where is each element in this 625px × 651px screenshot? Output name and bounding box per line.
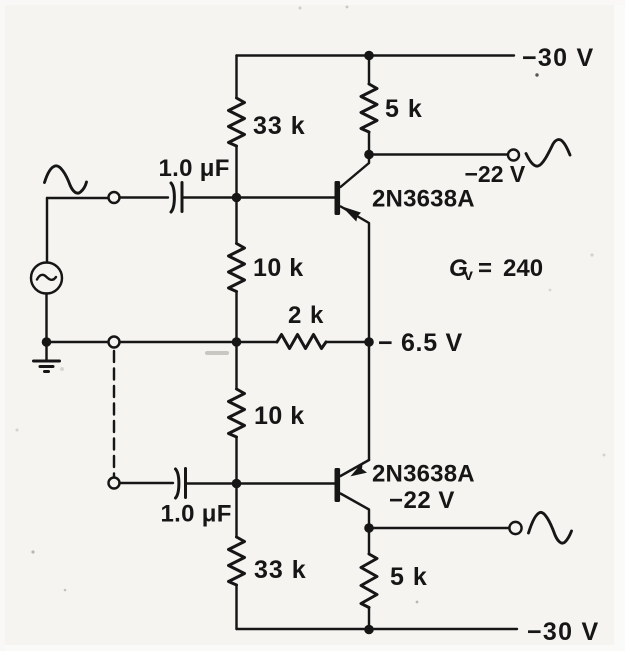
source sine generator lead top bbox=[46, 198, 48, 263]
output 2 sine squiggle bbox=[529, 512, 572, 543]
svg-text:−30 V: −30 V bbox=[527, 618, 600, 646]
node cap2 junction dot bbox=[232, 479, 242, 489]
node output 2 junction dot bbox=[364, 523, 374, 533]
resistor 5 k upper bbox=[361, 84, 377, 132]
resistor 10 k lower bbox=[229, 389, 245, 437]
dashed wire bbox=[113, 351, 115, 477]
resistor 10 k upper bbox=[229, 244, 245, 292]
ground bar 1 bbox=[34, 360, 60, 363]
label -30 V top bbox=[522, 44, 595, 72]
output 1 sine squiggle bbox=[526, 140, 570, 167]
resistor 10 k upper lead bbox=[235, 198, 237, 244]
svg-text:10 k: 10 k bbox=[253, 254, 304, 282]
source sine generator circle bbox=[31, 263, 62, 294]
wire input from source corner bbox=[47, 197, 109, 199]
node ground junction dot bbox=[42, 337, 52, 347]
svg-text:− 6.5 V: − 6.5 V bbox=[378, 329, 463, 357]
transistor Q1 base bar bbox=[335, 181, 341, 215]
svg-text:1.0 μF: 1.0 μF bbox=[159, 155, 230, 182]
wire output 1 bbox=[369, 153, 508, 155]
terminal cap2 row bbox=[109, 478, 120, 489]
wire mid row from ground junction bbox=[47, 341, 109, 343]
node collector output junction dot bbox=[364, 150, 374, 160]
label 5 k upper bbox=[385, 95, 423, 123]
svg-text:2 k: 2 k bbox=[288, 302, 324, 329]
wire 33k lower to bottom rail bbox=[235, 585, 237, 629]
svg-text:−22 V: −22 V bbox=[389, 487, 455, 514]
svg-text:−22 V: −22 V bbox=[465, 161, 526, 187]
terminal mid row bbox=[109, 337, 120, 348]
wire Q2 base bbox=[237, 482, 335, 484]
node mid-left junction dot bbox=[232, 337, 242, 347]
wire top rail -30V bbox=[237, 54, 515, 56]
wire cap2 terminal to capacitor bbox=[120, 482, 174, 484]
resistor 5 k lower bbox=[361, 554, 377, 608]
wire Q1 emitter to Q2 emitter bbox=[368, 342, 370, 460]
wire 33k to input node bbox=[235, 146, 237, 198]
resistor 10 k lower lead bbox=[235, 342, 237, 389]
svg-text:33 k: 33 k bbox=[254, 556, 307, 584]
wire bottom rail -30V bbox=[237, 628, 518, 630]
label 2 k bbox=[288, 302, 324, 329]
transistor Q1 2N3638A collector lead bbox=[341, 155, 370, 188]
source sine generator lead bottom bbox=[45, 294, 47, 343]
resistor 2 k lead left bbox=[237, 341, 278, 343]
transistor Q1 emitter lead bbox=[341, 207, 369, 343]
label 33 k lower bbox=[254, 556, 307, 584]
node top rail junction dot bbox=[364, 51, 374, 61]
resistor 33 k lower bbox=[229, 537, 245, 585]
svg-text:33 k: 33 k bbox=[253, 112, 306, 140]
wire capacitor to input node bbox=[183, 196, 237, 198]
resistor 2 k lead right bbox=[326, 341, 369, 343]
wire 5k lower to bottom rail bbox=[368, 608, 370, 630]
svg-text:2N3638A: 2N3638A bbox=[372, 186, 475, 213]
wire Q1 base bbox=[237, 196, 335, 198]
svg-text:1.0 μF: 1.0 μF bbox=[161, 501, 232, 528]
source sine generator tilde bbox=[37, 275, 56, 280]
wire 5k to collector node bbox=[368, 132, 370, 155]
label 1.0 uF upper bbox=[159, 155, 230, 182]
label 10 k lower bbox=[254, 402, 305, 430]
node top-left corner bbox=[235, 56, 237, 99]
paper speckles bbox=[535, 73, 538, 76]
wire capacitor to cap2 node bbox=[186, 482, 237, 484]
wire mid terminal to left column bbox=[120, 341, 237, 343]
capacitor 1.0uF lower straight plate bbox=[184, 469, 187, 498]
label 5 k lower bbox=[390, 563, 428, 591]
label -22 V lower bbox=[389, 487, 455, 514]
resistor 33 k upper bbox=[229, 98, 245, 146]
resistor 5 k upper lead top bbox=[368, 56, 370, 85]
terminal output 1 bbox=[508, 150, 519, 161]
svg-text:2N3638A: 2N3638A bbox=[372, 461, 475, 488]
svg-text:5 k: 5 k bbox=[385, 95, 423, 123]
label -6.5 V bbox=[378, 329, 463, 357]
ground bar 2 bbox=[40, 365, 53, 368]
label 2N3638A upper bbox=[372, 186, 475, 213]
capacitor 1.0uF upper curved plate bbox=[171, 183, 174, 212]
capacitor 1.0uF upper straight plate bbox=[181, 183, 184, 212]
resistor 5 k lower lead top bbox=[368, 528, 370, 554]
wire input terminal to capacitor bbox=[120, 196, 169, 198]
terminal output 2 bbox=[509, 522, 521, 534]
transistor Q1 emitter arrow bbox=[342, 206, 362, 221]
capacitor 1.0uF lower curved plate bbox=[176, 469, 179, 498]
svg-text:5 k: 5 k bbox=[390, 563, 428, 591]
node bottom rail junction dot bbox=[364, 625, 374, 635]
label 2N3638A lower bbox=[372, 461, 475, 488]
svg-text:10 k: 10 k bbox=[254, 402, 305, 430]
ground stub bbox=[45, 342, 47, 361]
wire 10k lower to cap2 node bbox=[235, 437, 237, 484]
label -30 V bottom bbox=[527, 618, 600, 646]
input sine squiggle bbox=[45, 166, 87, 193]
wire output 2 bbox=[369, 527, 510, 529]
label 33 k upper bbox=[253, 112, 306, 140]
transistor Q2 emitter arrow bbox=[350, 462, 367, 477]
label Gv = 240 bbox=[449, 255, 543, 284]
terminal input bbox=[109, 192, 120, 203]
node mid-right junction dot bbox=[364, 337, 374, 347]
svg-text:−30 V: −30 V bbox=[522, 44, 595, 72]
label -22 V upper bbox=[465, 161, 526, 187]
transistor Q2 emitter lead bbox=[341, 460, 370, 476]
resistor 2 k bbox=[277, 335, 326, 349]
wire 10k to mid node bbox=[235, 292, 237, 343]
resistor 33 k lower lead bbox=[235, 484, 237, 538]
label 10 k upper bbox=[253, 254, 304, 282]
ground bar 3 bbox=[45, 370, 49, 373]
label 1.0 uF lower bbox=[161, 501, 232, 528]
transistor Q2 base bar bbox=[335, 468, 341, 502]
transistor Q2 collector lead bbox=[341, 494, 370, 529]
node input junction dot bbox=[232, 193, 242, 203]
